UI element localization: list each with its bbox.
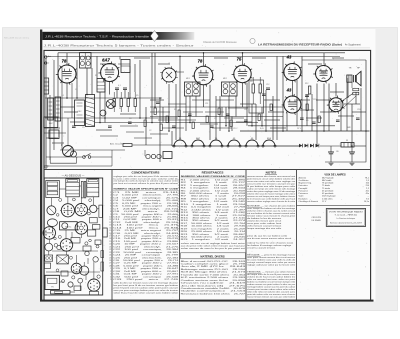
svg-text:R12: R12 [305,83,308,85]
svg-text:C7 2x8 MF electrolyt.: C7 2x8 MF electrolyt. 24-723 [113,207,180,210]
svg-text:R2: R2 [119,108,121,110]
svg-text:C33 250 pmf mica 27: C33 250 pmf mica 27-749 [113,279,180,281]
svg-text:R9: R9 [306,120,308,122]
svg-text:Condensateur variable 2x460: Condensateur variable 2x460 20-878 [181,287,247,290]
svg-text:une du avec masse mesure valeu: une du avec masse mesure valeur circuit [247,237,291,240]
oscillator coil can [162,68,176,82]
svg-text:6A7: 6A7 [102,58,110,63]
column divider 3 [245,170,247,301]
svg-text:selon fil par haut de selon co: selon fil par haut de selon courant avec… [114,292,180,295]
wire long bottom bus [240,130,370,132]
volume potentiometer P [63,146,74,157]
aux box [163,152,172,159]
svg-text:21: 21 [109,246,111,248]
svg-text:TR: TR [349,67,352,69]
svg-text:H.P. excitation 2.500 ohms: H.P. excitation 2.500 ohms 23-383 [181,276,247,279]
svg-text:17: 17 [109,236,111,238]
svg-text:R5: R5 [136,95,138,97]
svg-text:C23 50.000 pmf ceramiqu: C23 50.000 pmf ceramique 28-385 [113,251,179,254]
svg-text:C14 100 pmf mica 20: C14 100 pmf mica 20-848 [113,227,180,229]
chassis tab right [103,228,108,237]
svg-text:C12: C12 [266,84,269,86]
svg-text:R7 350 ohms 1 watt: R7 350 ohms 1 watt 27-927 [181,195,247,198]
svg-text:C2 5.000 pmf electrochi: C2 5.000 pmf electrochim. 27-796 [113,194,179,197]
resistors right of V4 [252,84,254,93]
chassis misc small circles group [54,198,101,283]
ballast resistor R [341,143,354,148]
screen resistor box [97,79,105,93]
svg-text:mesure cadran reglage avec cha: mesure cadran reglage avec chassis du le… [247,200,296,203]
chassis power transformer box [45,275,59,289]
svg-text:Resistance bobinee 150 ohms: Resistance bobinee 150 ohms 25-727 [181,292,247,295]
svg-text:Chassis de FLUXOR Rousseau: Chassis de FLUXOR Rousseau [203,41,237,44]
svg-text:C3 0,02 MF ceramique: C3 0,02 MF ceramique 25-576 [113,196,180,199]
wire bus 107 [150,106,283,108]
svg-text:L1: L1 [62,95,64,97]
svg-text:5: 5 [110,203,111,205]
svg-text:R1 2.000 ohms 1/4 watt: R1 2.000 ohms 1/4 watt 25-890 [181,178,247,181]
coupling caps under V2 [115,87,119,89]
wires bottom-left group [46,145,172,166]
tube V7 25Z5 rectifier [316,66,332,82]
svg-text:circuit la courant tension: circuit la courant tension [247,247,276,250]
svg-text:Galette commutatrice 21-553: Galette commutatrice 21-553 [181,290,247,293]
svg-text:MF2: MF2 [223,78,227,80]
chassis bottom right rects [90,291,99,295]
chassis wiring lines group [49,186,99,292]
tube V8 output [329,98,343,112]
svg-text:12 V: 12 V [322,201,327,203]
schematic value labels group [62,63,360,132]
svg-text:2: 2 [110,271,111,273]
antenna coil [44,78,49,94]
svg-text:78: 78 [62,59,67,64]
svg-text:C13 100 pmf mica 21: C13 100 pmf mica 21-376 [113,225,180,227]
wire bus mid2 [95,122,258,124]
left vertical wires [49,95,51,160]
resistances table rows [181,178,247,241]
svg-text:Antenne: Antenne [299,176,307,179]
white diamond ornament [151,31,159,42]
IF transformer T1 [80,53,92,69]
svg-text:6A7 triode: 6A7 triode [322,179,332,182]
tube V5 43 [284,64,301,81]
svg-text:4: 4 [110,276,111,278]
svg-text:Jeu de 2 MF 472 kc 28-643: Jeu de 2 MF 472 kc 28-643 [181,266,248,268]
padder trimmer circle [106,100,115,109]
svg-text:19: 19 [109,241,111,243]
svg-text:R8 350 ohms 1 watt: R8 350 ohms 1 watt 25-182 [181,197,247,200]
svg-text:75: 75 [237,57,242,62]
mains switch [83,156,86,159]
wire avc bus [45,97,162,99]
svg-text:R5 2.000 ohms 1/2 watt: R5 2.000 ohms 1/2 watt 20-909 [181,189,247,192]
notes paragraph reglage [247,254,296,267]
svg-text:R8: R8 [250,81,252,83]
svg-text:8: 8 [110,211,111,213]
svg-text:10: 10 [109,216,111,218]
svg-text:0,1: 0,1 [118,85,121,87]
IF transformer T2 [185,82,201,96]
svg-text:Service abonnements 24-2037: Service abonnements 24-2037 [330,221,362,224]
svg-text:43 penthode: 43 penthode [322,192,334,195]
MATERIEL DIVERS box [181,252,246,254]
header black band [42,32,152,40]
svg-text:R16 350 ohms 1/2 watt: R16 350 ohms 1/2 watt 22-274 [181,219,247,222]
svg-text:0,05: 0,05 [260,128,264,130]
svg-text:R3 1 megohm 1/4 watt: R3 1 megohm 1/4 watt 26-857 [181,184,247,187]
svg-text:R23 1 megohm 1/2 watt: R23 1 megohm 1/2 watt 24-317 [181,238,247,241]
electrolytic cap CE1 [328,151,334,153]
svg-text:Moyenne freq.: Moyenne freq. [299,182,313,185]
margin digit strip left of resistances [177,179,179,241]
svg-text:C19 100 pmf papier 400: C19 100 pmf papier 400 v. 23-886 [113,240,179,243]
svg-text:R12 2.000 ohms 1/2 watt: R12 2.000 ohms 1/2 watt 21-497 [181,208,247,211]
svg-text:Cordon secteur avec fiche 2: Cordon secteur avec fiche 20-890 [181,279,247,282]
svg-text:11: 11 [109,219,111,221]
wire loop bottom left [50,156,76,163]
filament arcs [174,140,186,146]
svg-text:L2: L2 [168,63,170,65]
svg-text:C9: C9 [158,111,160,113]
chassis top-left block [46,181,60,198]
svg-text:Preamplif.: Preamplif. [299,187,309,190]
resistances footnote lines [181,242,246,250]
svg-text:Bloc d accord GO-PO-OC 28-1: Bloc d accord GO-PO-OC 28-163 [181,260,247,263]
svg-text:C2: C2 [149,130,151,132]
svg-text:R13 350 ohms 1/4 watt: R13 350 ohms 1/4 watt 27-282 [181,211,247,214]
chassis speaker magnet hatched box [57,255,69,264]
wire 60 right [302,59,366,61]
scanned page white paper [40,29,376,302]
svg-text:C11 0,02 MF papier 600: C11 0,02 MF papier 600 v. 25-811 [113,218,179,221]
svg-text:24: 24 [109,255,111,257]
svg-text:J.R.L-4038 Recepteur Technic: J.R.L-4038 Recepteur Technic 5 lampes - … [44,44,195,47]
condensateurs footnote lines [114,282,180,295]
chassis circle 6A7 [60,239,72,251]
svg-text:6: 6 [110,206,111,208]
chassis socket pin dots group [45,205,97,289]
svg-text:CIRCUITS: CIRCUITS [312,217,322,219]
svg-text:R3: R3 [129,118,131,120]
svg-text:7: 7 [110,208,111,210]
svg-text:R22 50.000 ohms 2 watts: R22 50.000 ohms 2 watts 23-945 [181,236,247,239]
cathode resistor cluster [309,86,311,94]
wire bus 116 [150,116,283,118]
wire 72 segment [176,71,184,73]
svg-text:par haut est courant volume le: par haut est courant volume le pour des … [114,182,180,185]
left small box B [49,130,59,139]
small circle ornament [250,38,255,43]
left small box A [44,117,58,128]
svg-text:C31 0,01 MF papier 400: C31 0,01 MF papier 400 v. 27-991 [113,273,179,276]
svg-text:C28 5.000 pmf papier 20: C28 5.000 pmf papier 200 v. 24-388 [113,264,179,267]
header band fade [152,32,194,40]
svg-text:C25 250 pmf electrochim: C25 250 pmf electrochim. 22-184 [113,256,179,259]
small resistor rects group [144,104,320,131]
svg-text:C4 5.000 pmf electrolyt: C4 5.000 pmf electrolyt. 25-406 [113,199,180,202]
svg-text:NSC-4038 Docum interna: NSC-4038 Docum interna [4,37,30,40]
svg-text:3: 3 [110,197,111,199]
tube V3 78 [194,66,213,85]
svg-text:R20 25.000 ohms 1/4 wat: R20 25.000 ohms 1/4 watt 20-114 [181,230,247,233]
svg-text:R14 300 ohms 1 watt: R14 300 ohms 1 watt 21-920 [181,214,247,217]
svg-text:R11 0,5 megohm 1/2 watt: R11 0,5 megohm 1/2 watt 27-768 [181,206,247,209]
svg-text:43 penthode: 43 penthode [322,189,334,192]
svg-text:1: 1 [110,192,111,194]
wire right bus 126 [248,125,335,127]
svg-text:C32 500 pmf ceramique: C32 500 pmf ceramique 26-508 [113,275,180,278]
svg-text:R19 0,5 megohm 2 watts: R19 0,5 megohm 2 watts 25-259 [181,227,247,230]
svg-text:18: 18 [109,238,111,240]
chassis narrow bars [81,181,83,198]
tuning gang hatched box [86,95,95,127]
svg-text:C12 2x8 MF electrolyt.: C12 2x8 MF electrolyt. 29-916 [113,221,180,224]
svg-text:26: 26 [109,260,111,262]
switch wires [46,156,83,158]
svg-text:3: 3 [110,274,111,276]
svg-text:28: 28 [109,265,111,267]
svg-text:VOIR TECHNIQUE RADIO: VOIR TECHNIQUE RADIO [329,211,364,214]
svg-text:R17 50.000 ohms 1/2 wat: R17 50.000 ohms 1/2 watt 22-704 [181,222,247,225]
margin digit strip left of condensateurs [109,192,111,281]
chassis circles bottom [78,278,83,283]
svg-text:R2 1 megohm 1 watt: R2 1 megohm 1 watt 23-727 [181,181,247,184]
svg-text:C22 100 pmf ceramique: C22 100 pmf ceramique 28-384 [113,248,180,251]
condensateurs table rows [113,192,180,281]
tube V6 43 [284,96,301,113]
svg-text:R4 1 megohm 1/4 watt: R4 1 megohm 1/4 watt 28-604 [181,187,247,190]
chassis right edge small rects [101,251,104,258]
svg-text:20: 20 [109,244,111,246]
svg-text:J.R.L-4038 Recepteur Technic -: J.R.L-4038 Recepteur Technic - T.S.F. - … [45,36,150,39]
svg-text:C5 0,25 MF papier 200 v: C5 0,25 MF papier 200 v. 23-183 [113,202,179,205]
svg-text:Bobinage antenne PO-GO 28-5: Bobinage antenne PO-GO 28-594 [181,268,247,271]
svg-text:R1: R1 [95,75,97,77]
chassis mid ellipse [47,219,57,227]
svg-text:Excitation: Excitation [299,197,308,200]
svg-text:C15: C15 [313,99,316,101]
svg-text:Detectrice: Detectrice [299,184,309,187]
condensateurs intro paragraph [114,175,180,185]
svg-text:C11: C11 [205,103,208,105]
svg-text:selon mesure de sous le les pa: selon mesure de sous le les par le par p… [181,247,246,250]
chassis BLOC box [60,222,78,230]
svg-text:Transfo de sortie 7.000 ohms: Transfo de sortie 7.000 ohms 20-354 [181,273,247,276]
svg-text:C20 10 MF papier 200 v.: C20 10 MF papier 200 v. 23-507 [113,243,180,246]
grid coil box right of V2 label [121,60,130,73]
svg-text:OSC: OSC [77,111,82,113]
svg-text:Chauffage et filament: Chauffage et filament [299,200,319,203]
electrolytic cap CE2 [349,151,355,153]
svg-text:25Z5: 25Z5 [321,72,327,74]
svg-text:lampe montage des aux volts: lampe montage des aux volts [247,227,281,230]
svg-text:C21 250 pmf electrolyt.: C21 250 pmf electrolyt. 21-270 [113,245,180,248]
svg-text:14,5e: 14,5e [364,201,370,203]
svg-text:valve: valve [322,75,326,77]
svg-text:13: 13 [109,225,111,227]
tube V1 78 [58,65,76,83]
svg-text:Oscillatrice: Oscillatrice [299,179,310,182]
svg-text:R9 1 megohm 1/2 watt: R9 1 megohm 1/2 watt 23-581 [181,200,247,203]
coil shield box left 2 [55,97,61,121]
svg-text:Cadran complet avec glace 2: Cadran complet avec glace 25-798 [181,263,247,266]
chassis top right stack [87,179,99,197]
chassis socket circles row1 [47,206,56,215]
column divider 1 [111,170,113,301]
address box double border [326,209,365,227]
page left dark scan edge [40,30,42,302]
oscillator coil form box [75,100,85,126]
svg-text:R6 500.000 ohms 2 watts: R6 500.000 ohms 2 watts 24-298 [181,192,247,195]
page bottom dark scan edge [40,300,374,302]
voix de lampes rows [299,176,370,203]
chassis rect mid [88,230,96,236]
coil shield box left 1 [48,98,54,120]
chassis layout outer box [44,178,102,295]
svg-text:C26 50.000 pmf papier 2: C26 50.000 pmf papier 200 v. 23-774 [113,259,179,262]
resistor comb under V2 [113,99,115,107]
svg-text:R6: R6 [174,109,176,111]
svg-text:15: 15 [109,230,111,232]
svg-text:43: 43 [286,55,292,60]
svg-text:43: 43 [286,88,292,93]
column divider 2 [179,170,181,301]
svg-text:NUMERO VALEUR SPECIFICATION: NUMERO VALEUR SPECIFICATION N° CODE [114,187,179,190]
notes final paragraph [247,271,296,299]
wire pot drop [67,118,69,146]
svg-text:9: 9 [110,214,111,216]
chassis left column boxes [45,255,53,261]
svg-text:27: 27 [109,263,111,265]
filament chain base wire [172,145,299,147]
line resistor [123,144,132,147]
divider schematic/tables [44,169,371,171]
cap pair right of V4 [266,87,270,89]
svg-text:4: 4 [110,200,111,202]
svg-text:Ant: Ant [48,55,51,58]
wire bus B+ [46,55,340,57]
svg-text:C10 250 pmf papier 400: C10 250 pmf papier 400 v. 21-882 [113,215,179,218]
shield box right of V4 [249,80,264,113]
faint rule under header [44,47,371,49]
pickup jacks [146,154,150,158]
svg-text:masse tension tension sur avec: masse tension tension sur avec par selon… [247,296,296,299]
junction dots group [66,52,367,147]
svg-text:C27 0,25 MF papier 400: C27 0,25 MF papier 400 v. 27-951 [113,262,179,265]
svg-text:Self de filtrage 350 ohms 2: Self de filtrage 350 ohms 21-673 [181,271,247,274]
notes paragraph 1 [247,175,296,203]
svg-text:Chassis nu cadmie 21-619: Chassis nu cadmie 21-619 [181,283,248,285]
svg-text:C4: C4 [75,89,77,91]
svg-text:C30 2x8 MF papier 600 v: C30 2x8 MF papier 600 v. 22-807 [113,270,179,273]
svg-text:R15 350 ohms 2 watts: R15 350 ohms 2 watts 27-511 [181,216,247,219]
schematic outer frame [44,50,371,300]
ground symbols right [329,162,334,164]
tube V2 6A7 [101,64,119,82]
materiel divers rows [181,260,248,296]
svg-text:12: 12 [109,222,111,224]
IF transformer T3 [222,82,238,96]
wire short horizontal segments group [44,58,366,143]
svg-text:43: 43 [75,269,77,271]
svg-text:2: 2 [110,195,111,197]
svg-text:reglage cadran par valeur par: reglage cadran par valeur par la mesure … [247,264,296,267]
svg-text:NUMERO VALEUR PUISSANCE: NUMERO VALEUR PUISSANCE N° CODE [181,175,246,178]
svg-text:RÉSISTANCES: RÉSISTANCES [202,170,224,175]
chassis big circle bottom-left [43,227,55,239]
svg-text:22: 22 [109,249,111,251]
svg-text:C8: C8 [244,109,246,111]
svg-text:78 penthode: 78 penthode [322,182,334,185]
svg-text:R21 350 ohms 1/2 watt: R21 350 ohms 1/2 watt 28-867 [181,233,247,236]
svg-text:C6 5.000 pmf mica argen: C6 5.000 pmf mica argent 28-606 [113,205,179,208]
chassis circles row2 [62,223,68,229]
svg-text:CONDENSATEURS: CONDENSATEURS [132,171,160,175]
wire bus 64 segment [118,63,130,65]
svg-text:— AU-DESSOUS —: — AU-DESSOUS — [62,175,85,178]
svg-text:25: 25 [109,257,111,259]
svg-text:78: 78 [198,59,203,64]
svg-text:75 triode: 75 triode [322,187,331,190]
svg-text:VOIX DE LAMPES: VOIX DE LAMPES [324,174,346,177]
wire bottom right bus [325,161,366,163]
svg-text:C18: C18 [357,109,360,111]
svg-text:Le Directeur technique: Le Directeur technique [337,217,356,220]
svg-text:C24 25 MF ceramique: C24 25 MF ceramique 25-799 [113,254,180,257]
svg-text:14: 14 [109,227,111,229]
svg-text:C18 2x8 MF papier 200 v: C18 2x8 MF papier 200 v. 29-219 [113,237,179,240]
antenna terminal circles [45,56,47,58]
column divider 4 [296,170,298,301]
chassis top middle stack [66,179,80,197]
rule under voix table [297,205,371,207]
svg-text:R10 1 megohm 1 watt: R10 1 megohm 1 watt 23-594 [181,203,247,206]
svg-text:9, rue Jacob — PARIS (6e): 9, rue Jacob — PARIS (6e) [335,214,358,217]
svg-text:23: 23 [109,252,111,254]
scan speckle noise [44,31,371,298]
svg-text:SEC: SEC [49,123,54,125]
speaker wires [346,82,348,131]
svg-text:C16 0,01 MF electrolyt.: C16 0,01 MF electrolyt. 24-833 [113,232,180,235]
svg-text:C1 25 MF mica 29-16: C1 25 MF mica 29-161 [113,192,180,194]
svg-text:C17 250 pmf papier 600: C17 250 pmf papier 600 v. 20-572 [113,235,179,238]
svg-text:C29 0,1 MF papier 200 v: C29 0,1 MF papier 200 v. 26-647 [113,267,179,270]
svg-text:R18 10.000 ohms 1/4 wat: R18 10.000 ohms 1/4 watt 29-946 [181,225,247,228]
speaker field resistor [353,88,359,91]
svg-text:C13: C13 [233,128,236,130]
svg-text:5: 5 [110,279,111,281]
small trimmer circle [100,110,106,116]
wire bus mid [45,117,178,119]
svg-text:DE FRAIS: DE FRAIS [312,219,322,222]
svg-text:6A7 heptode: 6A7 heptode [322,176,334,179]
notes paragraph 2 montage [247,205,296,231]
svg-text:MF1: MF1 [186,78,190,80]
svg-text:1: 1 [110,268,111,270]
tube V4 75 [234,65,251,82]
wire vertical drops group [46,53,366,162]
chassis twin circles 43 [71,263,82,274]
small cap symbols group [72,94,360,128]
chassis bottom long bar [51,290,70,294]
wire top bus [58,52,345,54]
ballast diode chain [299,144,302,148]
svg-text:C8 0,05 MF mica 28-: C8 0,05 MF mica 28-528 [113,211,180,213]
svg-text:LA RETRANSMISSION DU RECEPTEUR: LA RETRANSMISSION DU RECEPTEUR-RADIO (Su… [258,42,342,46]
svg-text:C7: C7 [214,118,216,120]
ground symbol left [44,165,49,167]
